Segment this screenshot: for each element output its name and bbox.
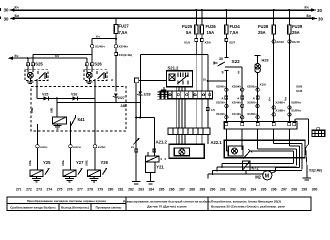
switch S26 housing <box>84 70 107 81</box>
zener V27 <box>113 93 118 102</box>
svg-text:Х2/7: Х2/7 <box>229 41 236 45</box>
pin label under FU26 <box>201 39 204 56</box>
svg-text:Потребители, контроль блока Фи: Потребители, контроль блока Фиксация 30(… <box>211 199 281 203</box>
diode V26 <box>57 96 95 100</box>
svg-text:Х2/5Кч: Х2/5Кч <box>247 101 257 105</box>
svg-text:кч/бл: кч/бл <box>98 145 106 149</box>
ground under K41 <box>54 124 62 129</box>
wire: left feed arrow to switches <box>8 57 87 60</box>
node junction diodes <box>56 97 58 99</box>
svg-text:Х1/4Кч: Х1/4Кч <box>232 112 242 116</box>
pin on wire 207.8 <box>206 108 209 111</box>
svg-text:299: 299 <box>302 188 308 192</box>
svg-text:Х3(2.4В): Х3(2.4В) <box>309 169 322 173</box>
pin label under FU24 <box>225 39 228 58</box>
svg-text:15А: 15А <box>207 30 215 35</box>
svg-text:кч: кч <box>131 145 134 149</box>
svg-text:282: 282 <box>128 188 134 192</box>
svg-text:273: 273 <box>36 188 42 192</box>
svg-text:Х2/8: Х2/8 <box>296 84 303 88</box>
svg-text:285: 285 <box>159 188 165 192</box>
svg-text:10,: 10, <box>203 77 207 81</box>
svg-text:Кч: Кч <box>96 35 100 39</box>
svg-text:292: 292 <box>230 188 236 192</box>
ground stub S21.2 <box>161 87 167 92</box>
lamp in S25 <box>28 66 34 81</box>
svg-text:30: 30 <box>318 17 323 22</box>
nest wire from col5 <box>271 140 299 173</box>
svg-text:S22: S22 <box>232 59 241 64</box>
svg-text:2/27: 2/27 <box>118 96 125 100</box>
edge tick a <box>0 8 1 11</box>
svg-text:286: 286 <box>169 188 175 192</box>
svg-text:Х8Б: Х8Б <box>30 108 34 113</box>
zener V28 <box>137 54 142 102</box>
wires S21.2 to strips <box>176 87 185 128</box>
svg-text:Х2/10: Х2/10 <box>276 40 284 44</box>
ladder col 2 pins <box>241 88 244 119</box>
svg-text:295: 295 <box>261 188 267 192</box>
svg-text:Х8Б: Х8Б <box>61 159 65 166</box>
svg-text:М: М <box>265 174 270 180</box>
ground Y27 <box>65 177 74 183</box>
ladder col 6 stub <box>294 119 296 121</box>
S25 output wire <box>36 81 38 99</box>
svg-text:Проверка смены: Проверка смены <box>96 206 122 210</box>
svg-text:V25: V25 <box>42 92 48 96</box>
ladder col 4 pins <box>272 34 275 141</box>
svg-text:278: 278 <box>87 188 93 192</box>
svg-text:FU25: FU25 <box>182 24 193 29</box>
svg-text:Реверсирование, включение быст: Реверсирование, включение быстрый сигнал… <box>123 199 211 203</box>
svg-text:274: 274 <box>47 188 53 192</box>
switch unit S21.2 <box>167 71 193 87</box>
wire Y27 stem <box>69 126 72 170</box>
svg-text:Х1/4Кч: Х1/4Кч <box>95 45 105 49</box>
fuse FU24 <box>225 9 229 39</box>
svg-text:25А: 25А <box>292 30 300 35</box>
svg-text:291: 291 <box>220 188 226 192</box>
svg-text:9: 9 <box>222 70 224 74</box>
actuator Y26 <box>88 168 108 177</box>
grid connector X10 <box>311 128 325 137</box>
svg-text:К41: К41 <box>78 117 86 122</box>
relay K72 coil <box>242 161 250 171</box>
svg-text:S25: S25 <box>35 62 43 67</box>
svg-text:7,5А: 7,5А <box>230 30 239 35</box>
ground Y26 <box>90 177 99 183</box>
svg-text:288: 288 <box>189 188 195 192</box>
svg-text:300: 300 <box>312 188 318 192</box>
contact bank in S21.2 <box>178 73 189 85</box>
motor symbol in A21.2 <box>174 148 189 156</box>
relay K72 contact <box>242 140 252 158</box>
svg-text:293: 293 <box>240 188 246 192</box>
svg-text:Y21: Y21 <box>156 164 164 169</box>
svg-text:Y25: Y25 <box>43 160 51 165</box>
svg-text:Х2/6: Х2/6 <box>205 41 212 45</box>
switch S25 housing <box>25 70 48 81</box>
svg-text:272: 272 <box>26 188 32 192</box>
svg-text:Чн: Чн <box>283 97 287 101</box>
fuse FU25 <box>195 9 199 39</box>
svg-text:Датчик 70 (Датчик) и реле: Датчик 70 (Датчик) и реле <box>147 204 187 208</box>
valve Y21 <box>146 156 167 184</box>
wire: FU27 branch to switches <box>90 38 117 55</box>
svg-text:289: 289 <box>200 188 206 192</box>
svg-text:Бн: Бн <box>15 14 20 18</box>
svg-text:30: 30 <box>219 57 223 61</box>
svg-text:М2: М2 <box>255 174 261 179</box>
actuator Y25 <box>30 168 50 177</box>
wire FU25 FU26 long drops <box>196 55 202 144</box>
switch S26 pin squares <box>85 54 94 66</box>
connector pin on FU27 stem <box>114 45 117 53</box>
diode V25 <box>37 96 57 100</box>
motor symbol in A22.1 <box>228 146 243 156</box>
wire from junction to bus 24V <box>56 98 58 102</box>
ground under S26 lamp <box>86 81 92 84</box>
svg-text:290: 290 <box>210 188 216 192</box>
wire Y25 stem <box>36 124 39 170</box>
svg-text:FU29: FU29 <box>292 24 303 29</box>
svg-text:30: 30 <box>317 8 322 13</box>
svg-text:Х2/9Кч: Х2/9Кч <box>216 84 226 88</box>
svg-text:Х1/5Кч: Х1/5Кч <box>247 112 257 116</box>
svg-text:FU26: FU26 <box>206 24 217 29</box>
svg-text:Кч: Кч <box>305 6 309 10</box>
connector strip X1 <box>168 91 213 99</box>
lamp H29 <box>255 55 261 121</box>
svg-text:Х1/5: Х1/5 <box>184 41 191 45</box>
bus line 30 upper <box>9 8 316 11</box>
svg-text:Х1/10: Х1/10 <box>292 40 300 44</box>
nest wire from col4 <box>213 140 303 174</box>
wire Y21 left lead <box>135 102 156 152</box>
lamp in S26 <box>86 66 92 81</box>
svg-text:Y26: Y26 <box>101 160 109 165</box>
svg-text:275: 275 <box>57 188 63 192</box>
svg-text:Y27: Y27 <box>76 160 84 165</box>
svg-text:V26: V26 <box>71 92 77 96</box>
switch S22 <box>214 53 242 140</box>
svg-text:Х1/8: Х1/8 <box>296 89 303 93</box>
svg-text:7,5А: 7,5А <box>119 30 128 35</box>
svg-text:S26: S26 <box>94 62 102 67</box>
svg-text:Х2/2Кч: Х2/2Кч <box>216 101 226 105</box>
svg-text:Преобразование сигналов систем: Преобразование сигналов системы охраны к… <box>27 199 106 203</box>
wire center ground <box>132 83 140 184</box>
motor M2 <box>263 171 272 180</box>
svg-text:2/28: 2/28 <box>144 92 151 96</box>
lamp square in S21.2 <box>169 74 175 80</box>
connector strip X2 <box>168 128 210 135</box>
nest wire from col3 <box>217 140 296 171</box>
unit box A22.1 <box>224 140 305 158</box>
svg-text:д: д <box>222 96 224 100</box>
svg-text:Выход (Контроль): Выход (Контроль) <box>61 206 89 210</box>
svg-text:Х1/2Кч: Х1/2Кч <box>216 112 226 116</box>
svg-text:279: 279 <box>98 188 104 192</box>
relay unit K41 dashed housing <box>31 87 126 132</box>
ladder col 5 pins <box>288 34 291 141</box>
svg-text:30: 30 <box>4 16 9 21</box>
svg-text:Х2/4Кч: Х2/4Кч <box>232 101 242 105</box>
svg-text:FU28: FU28 <box>258 24 269 29</box>
svg-text:FU27: FU27 <box>119 24 130 29</box>
svg-text:3: 3 <box>238 70 240 74</box>
contact in S26 <box>92 66 105 81</box>
svg-text:287: 287 <box>179 188 185 192</box>
connector icon X9 <box>158 91 167 100</box>
nest wire from K72 contact <box>222 151 294 168</box>
svg-text:284: 284 <box>149 188 155 192</box>
ground under S25 lamp <box>27 81 33 84</box>
svg-text:д: д <box>111 78 113 82</box>
svg-text:5А: 5А <box>186 30 191 35</box>
wires strip X2 to A21.2 <box>176 135 185 145</box>
svg-text:Х1/8Чн: Х1/8Чн <box>291 109 301 113</box>
svg-text:А21.2: А21.2 <box>156 140 168 145</box>
relay K41 contact <box>71 115 76 127</box>
svg-text:283: 283 <box>138 188 144 192</box>
svg-text:S21.2: S21.2 <box>168 66 180 71</box>
relay K41 coil <box>53 98 67 123</box>
svg-text:д: д <box>237 96 239 100</box>
svg-text:Х2/9Бн: Х2/9Бн <box>247 84 257 88</box>
svg-text:д: д <box>253 96 255 100</box>
svg-text:Х2/9Кч: Х2/9Кч <box>232 84 242 88</box>
S26 output wire <box>94 81 96 99</box>
svg-text:Срабатывание входа Выброс: Срабатывание входа Выброс <box>10 206 56 210</box>
switch S25 pin squares <box>26 54 34 66</box>
svg-text:Х8Б: Х8Б <box>84 159 88 166</box>
svg-text:А22.1: А22.1 <box>211 140 223 145</box>
svg-text:Х1/9: Х1/9 <box>260 82 267 86</box>
ground Y25 <box>32 177 41 183</box>
svg-text:Х2/8Чн: Х2/8Чн <box>291 101 301 105</box>
svg-text:271: 271 <box>16 188 22 192</box>
svg-text:Выгрузка 30 (Системы блока) с: Выгрузка 30 (Системы блока) с разблокир.… <box>211 204 285 208</box>
svg-text:24В: 24В <box>121 104 128 108</box>
svg-text:Х1/6Кч: Х1/6Кч <box>275 109 285 113</box>
wire to grid connector <box>296 119 312 180</box>
svg-text:1Л: 1Л <box>211 108 215 112</box>
svg-text:Х10(2.4Б): Х10(2.4Б) <box>119 53 133 57</box>
connector strip A22.1 top <box>224 121 297 129</box>
fuse FU27 <box>114 17 118 44</box>
svg-text:Бн: Бн <box>307 14 312 18</box>
svg-text:кч/сн: кч/сн <box>73 145 81 149</box>
nest wire bottom to M2 <box>208 170 263 178</box>
svg-text:277: 277 <box>77 188 83 192</box>
wire: upper link S25-S26 <box>33 53 92 55</box>
fuse FU26 <box>200 9 204 39</box>
svg-text:К72: К72 <box>252 165 260 170</box>
svg-text:25А: 25А <box>258 30 266 35</box>
pin label under FU25 <box>195 39 198 56</box>
svg-text:30: 30 <box>4 8 9 13</box>
svg-text:298: 298 <box>291 188 297 192</box>
fuse FU29 <box>288 9 292 34</box>
svg-text:Кч: Кч <box>15 54 19 58</box>
connector bracket on FU27 stem <box>115 53 118 92</box>
svg-text:281: 281 <box>118 188 124 192</box>
svg-text:Х8Б: Х8Б <box>49 108 53 113</box>
bus line 30 lower <box>9 17 317 20</box>
svg-text:276: 276 <box>67 188 73 192</box>
svg-text:Кч: Кч <box>268 97 272 101</box>
connector square left of S21.2 <box>134 78 166 83</box>
wire S21.2 top feed <box>140 54 226 144</box>
svg-text:296: 296 <box>271 188 277 192</box>
unit box A21.2 <box>169 144 204 158</box>
svg-text:280: 280 <box>108 188 114 192</box>
svg-text:294: 294 <box>251 188 257 192</box>
contact in S25 <box>33 66 47 81</box>
svg-text:Х8Б: Х8Б <box>28 159 32 166</box>
svg-text:Х2/4Кч: Х2/4Кч <box>119 45 129 49</box>
wire 24V horizontal <box>57 101 140 103</box>
ladder col 3 pins <box>256 88 259 119</box>
fuse FU28 <box>272 9 276 34</box>
svg-text:FU24: FU24 <box>230 24 241 29</box>
ladder col 1 pins <box>225 88 228 119</box>
wire Y21 right lead <box>135 116 154 156</box>
wire Y26 stem <box>93 98 96 170</box>
wires strip to A22.1 box <box>226 129 289 151</box>
legend table <box>7 197 311 210</box>
coordinate ruler numbers <box>16 188 318 192</box>
svg-text:кч/кч: кч/кч <box>40 145 47 149</box>
svg-text:Н29: Н29 <box>262 58 269 62</box>
svg-text:Кч: Кч <box>15 6 19 10</box>
svg-text:297: 297 <box>281 188 287 192</box>
actuator Y27 <box>63 168 83 177</box>
